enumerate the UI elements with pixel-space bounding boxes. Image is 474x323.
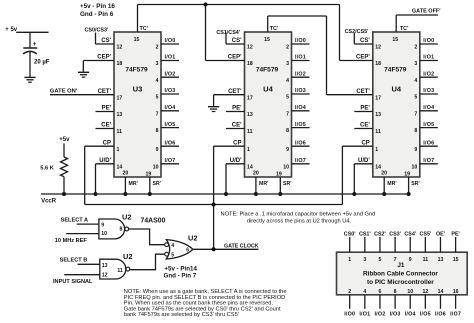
svg-text:GATE ON': GATE ON' [50,89,78,95]
svg-text:I/O5: I/O5 [423,122,434,128]
svg-text:+ 5v: + 5v [5,27,18,33]
svg-text:15: 15 [453,257,459,263]
svg-text:16: 16 [453,289,459,295]
svg-text:3: 3 [286,61,289,67]
svg-text:+5v: +5v [59,137,70,143]
svg-text:I/O0: I/O0 [423,38,434,44]
svg-text:9: 9 [101,222,104,228]
svg-text:11: 11 [117,268,123,274]
svg-text:9: 9 [414,147,417,153]
svg-text:I/O3: I/O3 [423,88,434,94]
svg-text:I/O7: I/O7 [295,158,306,164]
svg-text:CS0': CS0' [344,231,356,237]
svg-text:12: 12 [422,289,428,295]
svg-text:+5v - Pin14: +5v - Pin14 [164,266,197,273]
svg-text:CS': CS' [232,38,242,44]
svg-text:1: 1 [117,147,120,153]
svg-text:4: 4 [363,289,366,295]
svg-text:5.6 K: 5.6 K [40,166,54,172]
svg-text:NOTE: Place a .1 microfarad c: NOTE: Place a .1 microfarad capacitor be… [221,212,376,218]
svg-text:19: 19 [276,172,282,178]
svg-text:12: 12 [117,45,123,51]
svg-text:9: 9 [286,147,289,153]
svg-text:8: 8 [120,227,123,233]
svg-text:SR': SR' [411,181,419,187]
svg-text:I/O6: I/O6 [435,312,446,318]
svg-text:17: 17 [375,95,381,101]
svg-text:I/O4: I/O4 [423,105,434,111]
svg-text:I/O3: I/O3 [165,88,176,94]
svg-text:2: 2 [414,45,417,51]
svg-text:CET': CET' [356,89,370,95]
svg-text:10: 10 [283,164,289,170]
svg-text:13: 13 [438,257,444,263]
svg-text:SELECT A: SELECT A [61,218,88,224]
svg-text:10: 10 [412,164,418,170]
svg-text:CET': CET' [98,89,112,95]
svg-text:U2: U2 [123,252,132,261]
svg-text:I/O5: I/O5 [165,122,176,128]
svg-text:PE': PE' [451,231,459,237]
svg-text:TC': TC' [270,26,278,32]
svg-text:1: 1 [247,147,250,153]
svg-text:CEP': CEP' [97,55,111,61]
svg-text:Ribbon Cable Connector: Ribbon Cable Connector [363,271,438,278]
svg-text:8: 8 [394,289,397,295]
svg-text:14: 14 [247,164,253,170]
svg-text:4: 4 [156,78,159,84]
svg-text:18: 18 [247,61,253,67]
svg-text:PE': PE' [102,106,112,112]
svg-text:CE': CE' [101,123,111,129]
svg-text:U/D': U/D' [230,158,242,164]
svg-text:11: 11 [117,129,123,135]
svg-text:CS1/CS4': CS1/CS4' [216,30,240,36]
svg-text:20: 20 [253,171,259,177]
svg-text:5: 5 [156,95,159,101]
svg-text:15: 15 [392,37,398,43]
svg-text:U2: U2 [122,213,131,222]
svg-text:I/O4: I/O4 [295,105,306,111]
svg-text:I/O2: I/O2 [374,312,385,318]
svg-text:I/O1: I/O1 [165,55,176,61]
svg-text:6: 6 [186,247,189,253]
svg-text:7: 7 [286,111,289,117]
svg-text:3: 3 [414,61,417,67]
svg-text:10: 10 [153,164,159,170]
svg-text:20: 20 [123,171,129,177]
svg-text:CET': CET' [228,89,242,95]
svg-text:12: 12 [375,45,381,51]
svg-text:GATE OFF': GATE OFF' [412,9,441,15]
svg-text:8: 8 [156,128,159,134]
svg-text:PE': PE' [360,106,370,112]
svg-text:CEP': CEP' [356,55,370,61]
svg-text:4: 4 [171,243,174,249]
svg-text:directly across the pins at U2: directly across the pins at U2 through U… [247,218,352,224]
svg-text:CS': CS' [360,38,370,44]
svg-text:VccR: VccR [41,199,57,205]
svg-text:18: 18 [375,61,381,67]
svg-text:bank 74F579s are selected by C: bank 74F579s are selected by CS3' thru C… [124,312,239,318]
svg-text:4: 4 [286,78,289,84]
svg-text:3: 3 [363,257,366,263]
svg-text:11: 11 [247,129,253,135]
svg-text:20: 20 [381,171,387,177]
svg-text:I/O6: I/O6 [165,140,176,146]
svg-text:15: 15 [134,37,140,43]
svg-text:7: 7 [394,257,397,263]
svg-text:74F579: 74F579 [384,67,407,74]
svg-text:I/O4: I/O4 [165,105,176,111]
svg-text:74F579: 74F579 [125,67,148,74]
svg-text:TC': TC' [400,26,408,32]
svg-text:+: + [33,41,37,48]
svg-text:CS1': CS1' [359,231,371,237]
svg-text:I/O1: I/O1 [359,312,370,318]
svg-text:CS2': CS2' [374,231,386,237]
svg-text:5: 5 [414,95,417,101]
svg-text:MR': MR' [129,181,138,187]
svg-text:I/O6: I/O6 [295,140,306,146]
svg-text:17: 17 [247,95,253,101]
svg-text:U4: U4 [263,85,273,94]
svg-text:J1: J1 [397,262,405,269]
svg-text:I/O0: I/O0 [344,312,355,318]
svg-text:13: 13 [375,112,381,118]
svg-text:9: 9 [156,147,159,153]
svg-text:SR': SR' [283,181,291,187]
svg-text:I/O6: I/O6 [423,140,434,146]
svg-text:5: 5 [286,95,289,101]
svg-text:MR': MR' [259,181,268,187]
svg-text:I/O2: I/O2 [165,71,176,77]
svg-text:SR': SR' [153,181,161,187]
svg-text:CP: CP [233,140,241,146]
svg-text:SELECT B: SELECT B [60,258,88,264]
svg-text:INPUT SIGNAL: INPUT SIGNAL [53,279,93,285]
svg-text:11: 11 [375,129,381,135]
svg-text:I/O1: I/O1 [295,55,306,61]
svg-text:I/O0: I/O0 [295,38,306,44]
svg-text:1: 1 [375,147,378,153]
svg-text:12: 12 [102,273,108,279]
svg-text:I/O3: I/O3 [295,88,306,94]
svg-text:12: 12 [247,45,253,51]
svg-text:9: 9 [409,257,412,263]
svg-text:CP: CP [103,140,111,146]
svg-text:I/O1: I/O1 [423,55,434,61]
svg-text:14: 14 [117,164,123,170]
svg-text:74F579: 74F579 [256,67,279,74]
svg-text:CP: CP [361,140,369,146]
svg-text:19: 19 [404,172,410,178]
svg-text:15: 15 [264,37,270,43]
svg-text:CE': CE' [360,123,370,129]
svg-text:I/O7: I/O7 [450,312,461,318]
svg-text:I/O5: I/O5 [295,122,306,128]
svg-text:2: 2 [286,45,289,51]
svg-text:I/O3: I/O3 [390,312,401,318]
svg-text:U3: U3 [133,85,143,94]
svg-text:4: 4 [414,78,417,84]
svg-text:14: 14 [375,164,381,170]
svg-text:17: 17 [117,95,123,101]
svg-text:Gnd - Pin 7: Gnd - Pin 7 [164,273,197,280]
svg-text:8: 8 [286,128,289,134]
svg-text:I/O7: I/O7 [423,158,434,164]
svg-text:20 µF: 20 µF [34,59,50,65]
svg-text:CEP': CEP' [228,55,242,61]
svg-text:CE': CE' [232,123,242,129]
svg-text:to PIC Microcontroller: to PIC Microcontroller [367,279,434,286]
svg-text:CS2/CS5': CS2/CS5' [345,29,369,35]
svg-text:5: 5 [379,257,382,263]
svg-text:Gnd - Pin 6: Gnd - Pin 6 [80,11,114,18]
svg-text:U/D': U/D' [358,158,370,164]
svg-text:I/O0: I/O0 [165,38,176,44]
svg-text:CS4': CS4' [404,231,416,237]
svg-text:I/O2: I/O2 [295,71,306,77]
svg-text:PE': PE' [232,106,242,112]
svg-text:CS5': CS5' [419,231,431,237]
svg-text:3: 3 [156,61,159,67]
svg-text:TC': TC' [140,26,148,32]
svg-text:11: 11 [423,257,429,263]
svg-text:CS3': CS3' [389,231,401,237]
svg-text:10: 10 [407,289,413,295]
svg-text:U4: U4 [391,85,401,94]
svg-text:13: 13 [247,112,253,118]
svg-text:13: 13 [117,112,123,118]
svg-text:13: 13 [102,263,108,269]
svg-text:MR': MR' [387,181,396,187]
svg-text:8: 8 [414,128,417,134]
svg-text:7: 7 [156,111,159,117]
svg-text:I/O7: I/O7 [165,158,176,164]
svg-text:5: 5 [171,253,174,259]
svg-text:+5v - Pin 16: +5v - Pin 16 [80,3,115,10]
svg-text:18: 18 [117,61,123,67]
svg-text:OE': OE' [436,231,445,237]
svg-text:I/O2: I/O2 [423,71,434,77]
svg-text:74AS00: 74AS00 [141,218,166,225]
svg-text:14: 14 [438,289,444,295]
svg-text:GATE CLOCK: GATE CLOCK [224,244,259,250]
svg-text:6: 6 [379,289,382,295]
svg-text:I/O4: I/O4 [405,312,416,318]
svg-text:CS0/CS3': CS0/CS3' [85,28,109,34]
svg-text:U/D': U/D' [99,158,111,164]
svg-text:U2: U2 [188,233,197,242]
svg-text:10 MHz REF: 10 MHz REF [55,238,88,244]
svg-text:7: 7 [414,111,417,117]
svg-text:19: 19 [146,172,152,178]
svg-text:10: 10 [101,231,107,237]
svg-text:2: 2 [156,45,159,51]
svg-text:2: 2 [348,289,351,295]
svg-text:I/O5: I/O5 [420,312,431,318]
svg-text:1: 1 [348,257,351,263]
svg-text:CS': CS' [101,38,111,44]
